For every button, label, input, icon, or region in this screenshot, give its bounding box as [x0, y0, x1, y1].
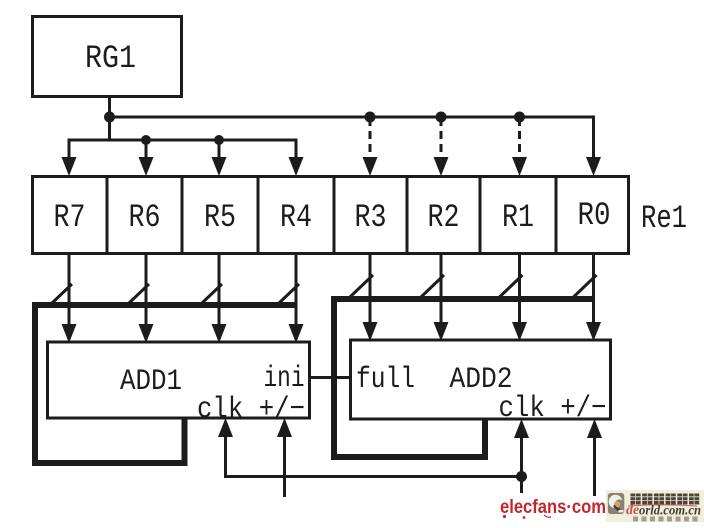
svg-text:R1: R1 [502, 199, 534, 236]
svg-text:R4: R4 [280, 199, 312, 236]
svg-text:RG1: RG1 [85, 40, 136, 77]
svg-text:R6: R6 [129, 199, 161, 236]
svg-text:R3: R3 [355, 199, 387, 236]
svg-text:de: de [626, 503, 639, 518]
svg-text:clk +/−: clk +/− [499, 392, 607, 426]
svg-text:R7: R7 [54, 199, 86, 236]
svg-text:R2: R2 [428, 199, 460, 236]
svg-text:orld.com.cn: orld.com.cn [639, 503, 701, 518]
svg-text:R5: R5 [204, 199, 236, 236]
svg-text:R0: R0 [578, 197, 611, 234]
svg-text:elecfans·com: elecfans·com [500, 495, 606, 517]
svg-text:full: full [356, 363, 415, 397]
svg-text:clk +/−: clk +/− [197, 393, 305, 427]
svg-text:ini: ini [264, 362, 305, 396]
svg-text:Re1: Re1 [641, 200, 687, 237]
svg-text:ADD1: ADD1 [120, 365, 182, 399]
